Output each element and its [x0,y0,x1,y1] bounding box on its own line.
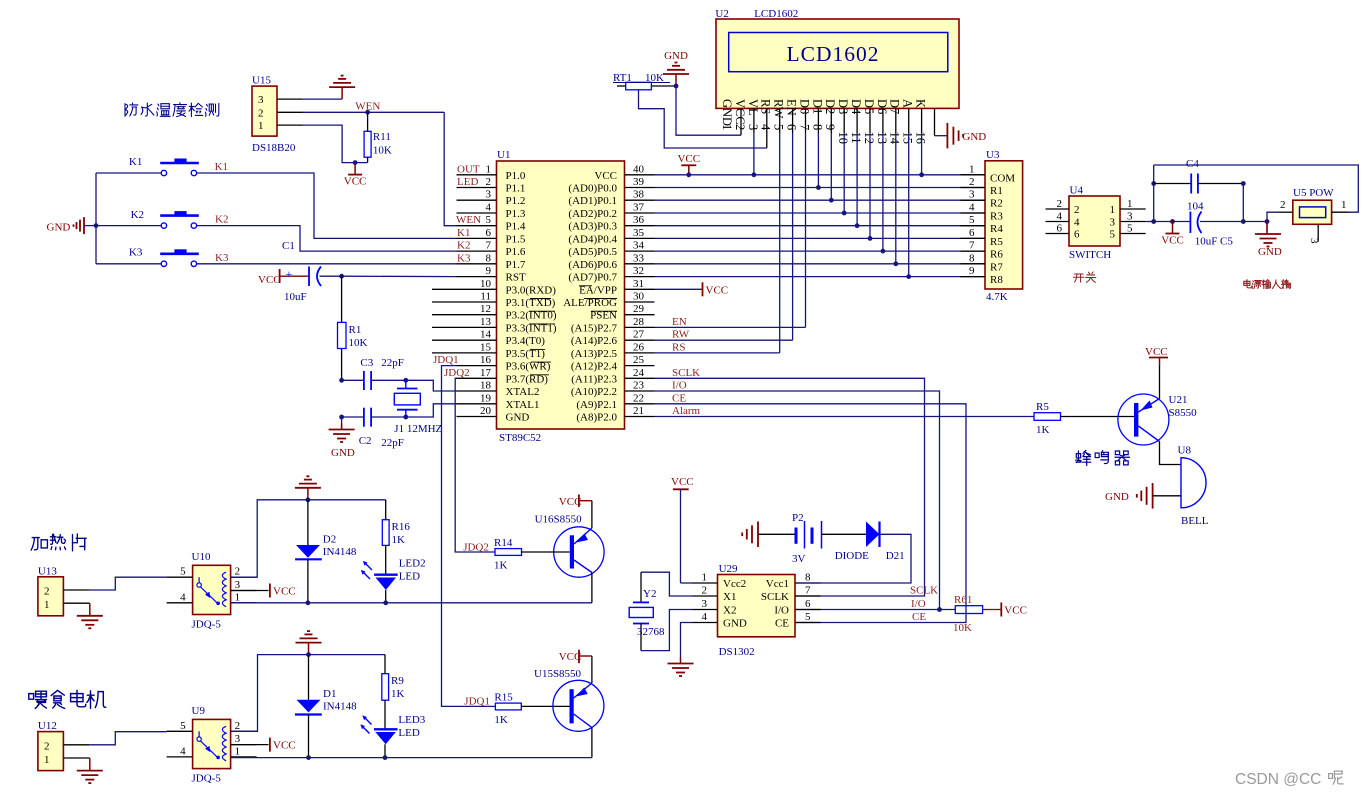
svg-text:8: 8 [486,252,492,264]
svg-text:5: 5 [180,720,186,732]
wire U4 pin3 to C5 junction [1146,221,1154,223]
svg-text:VCC: VCC [273,586,296,598]
svg-text:10uF: 10uF [284,291,307,303]
svg-text:10K: 10K [953,622,972,634]
svg-text:C2: C2 [359,435,372,447]
svg-text:2: 2 [1057,198,1063,210]
svg-text:J1 12MHZ: J1 12MHZ [394,423,442,435]
svg-text:GND: GND [664,50,688,62]
svg-text:GND: GND [1258,246,1282,258]
push button K1 [160,162,199,165]
svg-text:RST: RST [506,272,526,284]
svg-text:LED3: LED3 [398,714,425,726]
wire JDQ1 from U1 pin16 down to R15 [442,366,496,707]
svg-text:33: 33 [633,252,645,264]
svg-text:GND: GND [723,618,747,630]
svg-text:U9: U9 [192,705,206,717]
svg-text:26: 26 [633,341,645,353]
svg-text:37: 37 [633,202,645,214]
svg-text:4.7K: 4.7K [986,291,1008,303]
svg-text:+: + [286,267,293,281]
wire P0.5 row to U3 pin7 [655,250,986,252]
svg-text:D7: D7 [888,99,902,114]
svg-text:(A8)P2.0: (A8)P2.0 [576,412,617,424]
wire P0.2 row to U3 pin4 [655,212,986,214]
wire U16 collector to rail [591,573,593,603]
svg-text:D3: D3 [836,99,850,114]
svg-text:29: 29 [633,303,645,315]
wire crystal bottom to XTAL1 [403,415,408,420]
ground symbol above RT1 [675,74,677,86]
capacitor C4 104 [1154,183,1192,185]
svg-text:VCC: VCC [677,153,700,165]
svg-text:P1.5: P1.5 [506,233,526,245]
power VCC at relay U10 pin3 [231,590,269,592]
svg-text:4: 4 [969,202,975,214]
svg-text:BELL: BELL [1181,515,1209,527]
svg-text:(AD1)P0.1: (AD1)P0.1 [568,195,617,207]
svg-text:5: 5 [772,124,786,130]
relay U10 JDQ-5 [167,551,257,630]
svg-text:3: 3 [235,733,241,745]
svg-text:K1: K1 [215,161,228,173]
svg-text:R61: R61 [954,594,972,606]
svg-text:16: 16 [914,132,928,145]
svg-text:10K: 10K [349,337,368,349]
ground above D2 rail [307,488,309,500]
wire C5 row to U5 pin2 and ground [1243,221,1267,223]
svg-text:U12: U12 [38,720,57,732]
svg-text:6: 6 [1074,229,1080,241]
wire K3 to U1 pin8 [96,263,161,265]
svg-text:1K: 1K [391,688,405,700]
svg-text:2: 2 [258,107,264,119]
svg-text:RS: RS [672,341,685,353]
svg-text:U21: U21 [1169,394,1188,406]
svg-text:17: 17 [480,367,492,379]
svg-text:S8550: S8550 [1169,407,1198,419]
wire U21 emitter to VCC [1159,366,1161,399]
svg-text:P2: P2 [792,512,804,524]
svg-text:X2: X2 [723,605,736,617]
power VCC right of R61 [1000,603,1002,617]
svg-text:14: 14 [480,329,492,341]
svg-text:5: 5 [969,214,975,226]
svg-text:10: 10 [836,132,850,145]
svg-text:D5: D5 [862,99,876,114]
svg-text:U16S8550: U16S8550 [535,514,583,526]
wire K2 to U1 pin7 [96,225,161,227]
svg-text:K1: K1 [457,227,470,239]
svg-text:XTAL2: XTAL2 [506,386,540,398]
svg-text:1: 1 [44,754,50,766]
IC U1 ST89C52 microcontroller [432,149,655,444]
svg-text:2: 2 [235,566,241,578]
label 加热片 heater [31,538,47,551]
wire relay U9 pin1 rail to Q15 collector [231,757,592,759]
svg-text:3: 3 [258,94,264,106]
svg-text:3V: 3V [792,553,806,565]
svg-text:15: 15 [901,132,915,145]
svg-text:1: 1 [720,124,734,130]
svg-text:3: 3 [486,189,492,201]
svg-text:D21: D21 [886,550,905,562]
diode D1 IN4148 [308,655,310,700]
svg-text:EN: EN [672,316,687,328]
svg-text:1K: 1K [494,560,508,572]
resistor network U3 4.7K [960,149,1022,303]
svg-text:11: 11 [849,132,863,144]
svg-text:D1: D1 [323,688,336,700]
svg-text:1: 1 [1110,204,1116,216]
power VCC below R11 [354,163,356,175]
svg-text:OUT: OUT [457,163,480,175]
wire JDQ2 from U1 pin17 down to R14 [455,378,495,552]
svg-text:R8: R8 [990,274,1003,286]
svg-text:P1.7: P1.7 [506,259,526,271]
crystal J1 12MHZ [405,380,407,388]
svg-text:RS: RS [759,99,773,114]
ground below R1 chain [341,424,343,430]
svg-text:5: 5 [1110,229,1116,241]
svg-text:VCC: VCC [671,476,694,488]
wire P0.6 row to U3 pin8 [655,263,986,265]
svg-text:D0: D0 [797,99,811,114]
capacitor C3 22pF [342,379,364,381]
svg-text:4: 4 [702,611,708,623]
svg-text:3: 3 [1127,211,1133,223]
svg-text:1: 1 [235,745,241,757]
svg-text:(A10)P2.2: (A10)P2.2 [571,386,617,398]
svg-text:1K: 1K [494,714,508,726]
wire CE row to DS1302 CE [655,404,967,623]
wire VCC row pin40 to U3 pin1 [655,174,986,176]
wire P0.7 row to U3 pin9 [655,276,986,278]
svg-text:I/O: I/O [911,598,926,610]
svg-text:10: 10 [480,278,492,290]
diode D2 IN4148 [307,500,309,545]
label 防水温度检测 waterproof temperature detection [125,103,138,116]
svg-text:VCC: VCC [273,740,296,752]
svg-text:JDQ-5: JDQ-5 [192,618,222,630]
wire C1 to U1 RST pin9 [342,275,457,277]
crystal Y2 32768 [641,572,693,596]
svg-text:K3: K3 [129,247,143,259]
svg-text:I/O: I/O [774,605,789,617]
svg-text:VCC: VCC [258,274,281,286]
connector U12 [38,720,90,771]
svg-text:D1: D1 [810,99,824,114]
svg-text:CE: CE [775,618,789,630]
svg-text:104: 104 [1187,201,1204,213]
wire U13 pin2 to relay U10 pin5 [90,577,167,590]
wire P0.4 row to U3 pin6 [655,237,986,239]
svg-text:RW: RW [772,99,786,119]
wire relay U10 pin1 rail to Q16 collector [231,602,592,604]
svg-text:4: 4 [486,202,492,214]
svg-text:R5: R5 [1036,401,1049,413]
wire LCD pin15 A to VCC row [921,108,923,133]
svg-text:1: 1 [1341,199,1347,211]
svg-text:R1: R1 [349,324,362,336]
wire LCD pin16 K to GND [934,108,936,135]
wire K1 to U1 pin6 [96,172,161,174]
svg-text:U3: U3 [986,149,1000,161]
svg-text:WEN: WEN [456,214,481,226]
svg-text:(A12)P2.4: (A12)P2.4 [571,361,618,373]
relay U9 JDQ-5 [167,705,257,784]
svg-text:22pF: 22pF [381,357,404,369]
svg-text:1K: 1K [1036,424,1050,436]
bell U8 BELL [1178,445,1209,528]
svg-text:3: 3 [746,124,760,130]
svg-text:20: 20 [480,405,492,417]
svg-text:2: 2 [969,176,975,188]
connector U13 [38,565,90,616]
svg-text:K2: K2 [457,240,470,252]
svg-text:6: 6 [785,124,799,130]
svg-text:VCC: VCC [594,170,617,182]
svg-text:5: 5 [1127,223,1133,235]
svg-text:6: 6 [1057,223,1063,235]
svg-text:VCC: VCC [344,176,367,188]
svg-text:GND: GND [331,447,355,459]
svg-text:D2: D2 [323,534,336,546]
svg-text:(A9)P2.1: (A9)P2.1 [576,399,617,411]
svg-text:JDQ2: JDQ2 [463,542,489,554]
capacitor C5 10uF polarized [1154,221,1191,223]
svg-text:A: A [901,99,915,108]
wire Alarm row to R5 [655,416,1035,418]
svg-text:R6: R6 [990,249,1003,261]
resistor R61 10K pull-up [955,606,982,614]
svg-text:GND: GND [506,412,530,424]
capacitor C2 22pF [341,417,343,430]
LED2 indicator [385,545,387,575]
svg-text:K: K [914,99,928,108]
transistor U15 S8550 [534,668,604,731]
svg-text:5: 5 [486,214,492,226]
svg-text:X1: X1 [723,591,736,603]
svg-text:3: 3 [969,189,975,201]
connector U15 DS18B20 [252,75,303,155]
svg-text:R7: R7 [990,261,1003,273]
wire P0.1 row to U3 pin3 [655,199,986,201]
svg-text:K3: K3 [457,252,471,264]
svg-text:8: 8 [969,252,975,264]
svg-text:19: 19 [480,392,492,404]
svg-text:K3: K3 [215,252,229,264]
svg-text:P1.4: P1.4 [506,221,526,233]
svg-text:R14: R14 [494,537,513,549]
svg-text:U5 POW: U5 POW [1293,187,1334,199]
svg-text:P1.0: P1.0 [506,170,526,182]
svg-text:28: 28 [633,316,645,328]
svg-text:18: 18 [480,380,492,392]
svg-text:1: 1 [1127,198,1133,210]
svg-text:DIODE: DIODE [835,550,869,562]
wire U15 collector to rail [591,728,593,758]
svg-text:XTAL1: XTAL1 [506,399,540,411]
svg-text:U10: U10 [192,551,211,563]
svg-text:27: 27 [633,329,645,341]
wire vertical junction to C4 top loop [1153,165,1155,222]
svg-text:12: 12 [862,132,876,145]
diode D21 DIODE [822,533,867,535]
svg-text:3: 3 [235,579,241,591]
wire I/O row to DS1302 I/O and R61 [655,391,940,610]
wire U21 collector to bell [1160,442,1182,465]
svg-text:(A14)P2.6: (A14)P2.6 [571,335,618,347]
svg-text:U13: U13 [38,565,57,577]
svg-text:VCC: VCC [706,284,729,296]
svg-text:DS1302: DS1302 [719,646,755,658]
svg-text:K1: K1 [129,156,142,168]
wire relay U9 pin2 up to diode rail [231,655,385,732]
svg-text:LCD1602: LCD1602 [754,8,798,20]
transistor U16 S8550 [535,514,605,578]
ground above U15 pin3 wire [341,87,343,99]
label 开关 switch [1073,274,1084,282]
push button K3 [160,253,199,256]
svg-text:2: 2 [1074,204,1080,216]
power VCC on row 40 [688,165,690,175]
svg-text:JDQ-5: JDQ-5 [192,772,222,784]
svg-text:2: 2 [44,740,50,752]
svg-text:Vcc1: Vcc1 [766,578,789,590]
svg-text:12: 12 [480,303,491,315]
svg-text:VCC: VCC [1161,235,1184,247]
svg-text:(AD2)P0.2: (AD2)P0.2 [568,208,617,220]
svg-text:ST89C52: ST89C52 [499,432,541,444]
DIP switch U4 SWITCH [1046,185,1146,262]
power connector U5 POW [1278,187,1349,244]
ground at U13 pin1 [89,603,91,616]
svg-text:LED: LED [398,727,419,739]
svg-text:30: 30 [633,291,645,303]
svg-text:1: 1 [486,163,492,175]
wire P0.3 row to U3 pin5 [655,225,986,227]
wire EA/VPP pin31 to VCC [655,288,703,290]
potentiometer RT1 10K [617,85,626,87]
svg-text:(AD0)P0.0: (AD0)P0.0 [568,183,617,195]
svg-text:P1.1: P1.1 [506,183,526,195]
wire U29 pin4 GND [681,623,693,659]
svg-text:1K: 1K [392,534,406,546]
svg-text:GND: GND [962,131,986,143]
wire U12 pin2 to relay U9 pin5 [90,732,167,745]
wire U15 emitter to VCC [591,656,593,683]
svg-text:U29: U29 [719,563,738,575]
svg-text:6: 6 [486,227,492,239]
svg-text:RW: RW [672,329,690,341]
wire R5 to Q U21 base [1061,416,1135,418]
wire crystal top to XTAL2 [403,378,408,383]
ground above D1 rail [308,643,310,655]
svg-text:U15: U15 [252,75,271,87]
svg-text:LED: LED [399,571,420,583]
svg-text:COM: COM [990,172,1015,184]
svg-text:9: 9 [486,265,492,277]
svg-text:(AD7)P0.7: (AD7)P0.7 [568,272,617,284]
svg-text:31: 31 [633,278,644,290]
wire button common vertical [95,173,97,264]
svg-text:I/O: I/O [672,380,687,392]
svg-text:10uF C5: 10uF C5 [1195,236,1234,248]
svg-text:U4: U4 [1070,185,1084,197]
svg-text:2: 2 [235,720,241,732]
svg-text:CE: CE [672,392,686,404]
svg-text:R16: R16 [392,521,411,533]
wire top loop to U5 pin1 [1154,165,1359,212]
svg-text:(AD3)P0.3: (AD3)P0.3 [568,221,617,233]
svg-text:38: 38 [633,189,645,201]
wire P0.0 row to U3 pin2 [655,187,986,189]
transistor U21 S8550 PNP [1118,394,1197,445]
svg-text:LED: LED [457,176,478,188]
svg-text:Vcc2: Vcc2 [723,578,746,590]
svg-text:JDQ2: JDQ2 [444,367,470,379]
svg-text:7: 7 [969,240,975,252]
label 电源输入端 power input [1244,280,1252,288]
wire LCD pin3 VL to RT1 wiper [766,108,768,148]
svg-text:C1: C1 [282,240,295,252]
svg-text:10K: 10K [373,145,392,157]
label 蜂鸣器 buzzer [1076,450,1091,465]
svg-text:VL: VL [746,99,760,116]
svg-text:R3: R3 [990,211,1003,223]
svg-text:K2: K2 [131,209,144,221]
svg-text:U8: U8 [1178,445,1192,457]
svg-text:K2: K2 [215,214,228,226]
resistor R9 1K [384,655,386,674]
svg-text:(A11)P2.3: (A11)P2.3 [571,373,617,385]
wire U15 pin1 to VCC [303,125,368,163]
svg-text:U2: U2 [715,8,728,20]
svg-text:5: 5 [180,566,186,578]
power VCC at relay U9 pin3 [231,744,269,746]
resistor R11 10K [367,112,369,131]
wire LCD pin2 VCC down to VCC row [753,108,755,133]
svg-text:(AD4)P0.4: (AD4)P0.4 [568,233,617,245]
svg-text:8: 8 [810,124,824,130]
svg-text:P3.4(T0): P3.4(T0) [506,335,546,347]
svg-text:4: 4 [1074,217,1080,229]
svg-text:1: 1 [258,120,264,132]
svg-text:R5: R5 [990,236,1003,248]
RTC U29 DS1302 [693,563,821,658]
svg-text:IN4148: IN4148 [323,546,357,558]
svg-text:9: 9 [969,265,975,277]
svg-text:P1.6: P1.6 [506,246,526,258]
svg-text:13: 13 [875,132,889,145]
label 喂食电机 feeding motor [29,691,47,708]
svg-text:21: 21 [633,405,644,417]
svg-text:P1.3: P1.3 [506,208,526,220]
svg-text:P1.2: P1.2 [506,195,526,207]
svg-text:JDQ1: JDQ1 [433,354,459,366]
svg-text:2: 2 [733,124,747,130]
wire WEN from U15 pin2 to U1 pin5 [303,111,445,113]
resistor R1 10K [341,276,343,322]
svg-text:C3: C3 [360,357,373,369]
ground symbol right of LCD [946,123,948,148]
svg-text:25: 25 [633,354,645,366]
svg-text:CSDN @CC: CSDN @CC [1235,771,1321,788]
svg-text:4: 4 [759,124,773,131]
svg-text:7: 7 [805,585,811,597]
svg-text:23: 23 [633,380,645,392]
